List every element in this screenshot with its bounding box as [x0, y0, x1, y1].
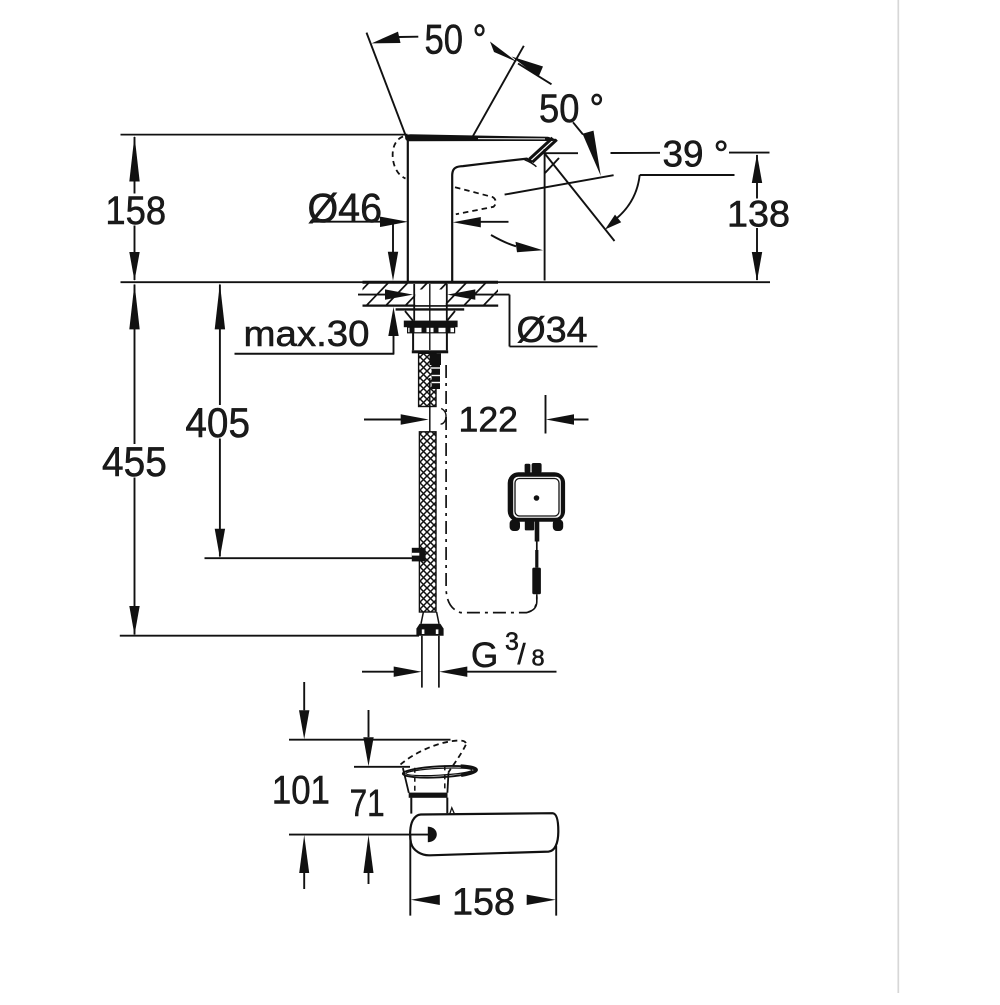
- 158b arrow left: [411, 895, 440, 905]
- control box bottom tab: [525, 521, 534, 530]
- second 50deg narrow arrow: [583, 131, 601, 176]
- supply tube right: [438, 636, 440, 688]
- escutcheon inner ellipse: [406, 767, 472, 777]
- 122 arrow left: [546, 414, 574, 424]
- 50deg arrow on left line: [372, 32, 401, 44]
- hose clip: [412, 548, 426, 562]
- lever blade inner white slit: [478, 138, 545, 140]
- spout outlet wedge stroke 1: [532, 140, 556, 163]
- 39deg horizontal reference: [640, 174, 735, 176]
- page divider line: [897, 0, 899, 993]
- dia46 left arrow tail: [478, 221, 509, 223]
- lock ring tabs: [410, 327, 451, 333]
- 101 arrow up: [299, 835, 309, 873]
- connector nut black: [416, 624, 443, 636]
- scissor tail: [518, 64, 552, 85]
- cord weight: [532, 568, 541, 595]
- 71 arrow up: [364, 835, 374, 873]
- 101 arrow down: [299, 710, 309, 739]
- mounting nut (black): [404, 321, 458, 328]
- 50deg tilted line right: [472, 46, 524, 137]
- dia46 arrow left: [453, 217, 481, 227]
- 405 dim line lower: [219, 439, 221, 557]
- connector trapezoid right: [437, 612, 439, 624]
- deck top thick segment: [363, 281, 499, 284]
- dia46 underline: [310, 221, 382, 223]
- swing arc arrowhead: [516, 242, 544, 253]
- shank center rod: [429, 284, 431, 350]
- neck right edge: [446, 798, 448, 814]
- svg-text:455: 455: [102, 438, 167, 485]
- braided hose upper section: [419, 353, 436, 406]
- 50deg tilted line left: [367, 33, 407, 138]
- 71 top ref line: [354, 766, 410, 768]
- cord thick segment: [535, 550, 538, 568]
- shank left edge: [413, 284, 415, 321]
- 101 top ref line: [289, 739, 451, 741]
- supply tube left: [421, 636, 423, 688]
- dome right edge: [447, 773, 448, 793]
- counter line: [121, 281, 771, 283]
- 455 dim line lower: [134, 478, 136, 635]
- 122 right tail: [571, 419, 589, 421]
- 158 arrow up: [129, 136, 139, 182]
- lock ring band: [408, 327, 455, 333]
- cord root: [535, 521, 540, 542]
- 158b arrow right: [527, 895, 556, 905]
- deck hatch: [346, 282, 507, 307]
- spout height ref line segment 3: [729, 152, 770, 154]
- cone right slant: [447, 311, 455, 321]
- dia34 underline: [510, 346, 598, 348]
- 405 bottom ref line: [205, 557, 414, 559]
- spout height ref line segment 2: [611, 152, 661, 154]
- svg-text:158: 158: [105, 189, 166, 233]
- dia34 leader vertical: [509, 295, 511, 347]
- hex shank bottom band: [412, 350, 448, 353]
- control box feet: [510, 520, 520, 532]
- neck seam notch: [450, 808, 454, 814]
- handle stadium outline: [410, 813, 558, 855]
- svg-text:50 °: 50 °: [425, 16, 487, 63]
- bottom ref line: [289, 834, 429, 836]
- joint band: [409, 793, 448, 798]
- dashed lever tilted-back position: [393, 137, 406, 179]
- hex shank left: [412, 333, 414, 351]
- body right edge and spout underside: [452, 159, 532, 282]
- dome hidden edge dashed left: [414, 768, 416, 792]
- 101 dim line above: [303, 682, 305, 710]
- svg-text:71: 71: [350, 782, 385, 825]
- G38 arrow left: [439, 667, 467, 677]
- max30 upper drop line: [392, 222, 394, 252]
- svg-text:Ø34: Ø34: [517, 309, 588, 350]
- dome hidden edge dashed right: [444, 765, 446, 791]
- dashed lever blade bottom: [448, 745, 465, 773]
- drain hole mark: [428, 827, 437, 843]
- svg-text:Ø46: Ø46: [308, 185, 383, 231]
- control box center dot: [534, 495, 540, 501]
- deck hole mask: [415, 290, 446, 306]
- scissor arrow B: [512, 57, 544, 78]
- svg-text:101: 101: [272, 768, 330, 812]
- 122 left tail: [364, 419, 402, 421]
- washer line: [396, 308, 465, 310]
- svg-text:138: 138: [727, 194, 790, 235]
- max30 arrow up to deck bottom: [388, 307, 398, 336]
- spout outlet lower lip: [525, 160, 537, 167]
- dia34 arrow left: [447, 289, 475, 299]
- dia34 right tail: [473, 294, 510, 296]
- pull cable dash-dot path: [446, 365, 537, 613]
- svg-text:8: 8: [532, 645, 545, 671]
- dashed lever blade top: [401, 740, 466, 764]
- 455 dim line upper: [134, 285, 136, 445]
- svg-text:39 °: 39 °: [663, 134, 729, 175]
- body left edge: [407, 141, 409, 282]
- 122 arrow right: [401, 414, 429, 424]
- 158 dim line lower: [134, 226, 136, 281]
- 138 dim line lower: [756, 228, 758, 280]
- connector trapezoid left: [421, 612, 423, 624]
- second hose stub lower: [432, 365, 440, 389]
- escutcheon right emphasis: [403, 764, 477, 779]
- cord lower curve: [529, 594, 537, 612]
- lever blade (top, filled): [405, 134, 557, 141]
- 158b left ext line: [409, 835, 411, 916]
- svg-text:50 °: 50 °: [539, 87, 604, 131]
- neck left edge: [410, 798, 412, 814]
- max30 arrow down to deck: [388, 252, 398, 281]
- svg-text:G: G: [471, 636, 498, 675]
- spout outlet wedge stroke 2: [529, 138, 552, 159]
- G38 right tail: [465, 671, 557, 673]
- G38 left tail: [362, 671, 395, 673]
- hex shank right: [446, 333, 448, 351]
- connector nut white slits: [422, 629, 425, 634]
- dia34 arrow right: [385, 289, 413, 299]
- hose clip white notch: [412, 553, 420, 556]
- G38 arrow right: [394, 667, 422, 677]
- lever axis line: [505, 175, 614, 194]
- top reference line: [121, 134, 408, 136]
- dashed lever down position: [455, 187, 496, 214]
- pull rod: [429, 378, 431, 432]
- cone left slant: [405, 311, 413, 321]
- 405 arrow down: [215, 529, 225, 558]
- 158 arrow down: [129, 252, 139, 281]
- braided hose lower section: [419, 432, 436, 612]
- dia34 left tail: [358, 294, 388, 296]
- 101 dim line below: [303, 864, 305, 889]
- control box top tabs: [525, 464, 531, 473]
- dia46 arrow right: [380, 217, 408, 227]
- control box inner frame: [512, 476, 562, 520]
- 138 arrow down: [752, 252, 762, 281]
- 71 dim line below: [368, 864, 370, 884]
- stream direction line: [544, 152, 615, 241]
- 50deg label tail: [399, 36, 418, 38]
- second 50deg label tail: [573, 122, 583, 134]
- control box innermost line: [515, 479, 559, 517]
- 122 right ref line: [545, 395, 547, 434]
- 405 dim line upper: [219, 285, 221, 406]
- shank right edge: [446, 284, 448, 321]
- deck bottom line: [363, 305, 499, 307]
- 71 dim line above: [368, 710, 370, 737]
- max30 lower line: [393, 336, 395, 354]
- outlet vertex tick: [545, 158, 559, 173]
- cord upper: [536, 542, 538, 551]
- 138 dim line upper: [756, 155, 758, 199]
- 39deg arc: [612, 175, 640, 222]
- svg-text:405: 405: [185, 399, 250, 446]
- 71 arrow down: [363, 737, 373, 766]
- scissor arrow A: [490, 42, 517, 63]
- 405 arrow up: [215, 283, 225, 329]
- second hose stub white slits: [431, 367, 442, 369]
- svg-text:122: 122: [459, 401, 519, 440]
- svg-text:/: /: [518, 639, 527, 671]
- escutcheon ellipse: [403, 764, 477, 779]
- control box outer shell: [510, 475, 563, 520]
- spout height ref line segment 1: [545, 152, 578, 154]
- svg-text:158: 158: [452, 881, 515, 923]
- max30 underline: [235, 353, 395, 355]
- dome left edge: [403, 768, 409, 793]
- 455 bottom ref line: [120, 635, 419, 637]
- 158 dim line upper: [134, 137, 136, 194]
- outlet vertex vertical line: [544, 149, 546, 281]
- svg-text:max.30: max.30: [244, 313, 370, 354]
- 158b right ext line: [555, 846, 557, 916]
- cut hose hook: [441, 409, 446, 425]
- handle swing arc: [491, 235, 516, 246]
- 455 arrow up: [129, 283, 139, 329]
- second hose stub black: [430, 353, 441, 365]
- 138 arrow up: [752, 154, 762, 183]
- 455 arrow down: [129, 606, 139, 635]
- 39deg arc arrowhead: [605, 215, 621, 230]
